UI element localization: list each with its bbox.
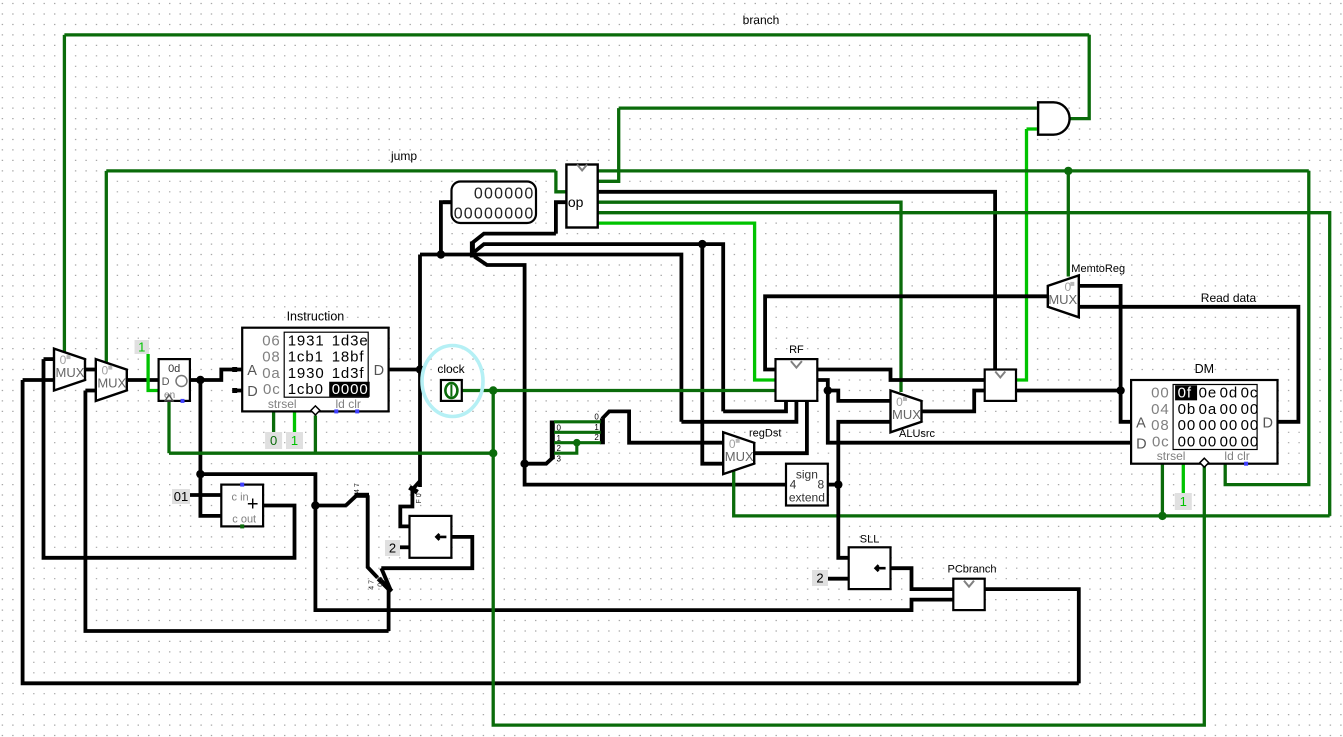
svg-text:DM: DM bbox=[1195, 362, 1214, 376]
svg-text:1d3f: 1d3f bbox=[332, 365, 365, 382]
svg-text:op: op bbox=[568, 194, 584, 210]
svg-text:D: D bbox=[1136, 437, 1146, 453]
svg-text:regDst: regDst bbox=[749, 427, 781, 439]
svg-text:1: 1 bbox=[138, 340, 145, 355]
svg-text:06: 06 bbox=[262, 332, 281, 349]
svg-text:00: 00 bbox=[1241, 433, 1260, 450]
svg-text:1: 1 bbox=[557, 434, 562, 443]
svg-text:D: D bbox=[374, 363, 384, 379]
svg-text:MUX: MUX bbox=[725, 449, 754, 464]
svg-text:0b: 0b bbox=[1178, 401, 1197, 418]
svg-text:0000: 0000 bbox=[332, 381, 369, 398]
svg-text:2: 2 bbox=[389, 541, 396, 556]
svg-text:MUX: MUX bbox=[97, 376, 126, 391]
svg-text:0: 0 bbox=[594, 412, 599, 421]
svg-text:ld clr: ld clr bbox=[1224, 449, 1249, 463]
svg-text:0: 0 bbox=[557, 423, 562, 432]
svg-text:00: 00 bbox=[1178, 433, 1197, 450]
svg-text:clock: clock bbox=[437, 362, 465, 376]
svg-text:00: 00 bbox=[1241, 401, 1260, 418]
svg-text:A: A bbox=[247, 363, 257, 379]
svg-text:1930: 1930 bbox=[288, 365, 325, 382]
svg-text:PCbranch: PCbranch bbox=[948, 564, 997, 576]
svg-text:00000000: 00000000 bbox=[454, 206, 535, 223]
svg-text:strsel: strsel bbox=[268, 397, 297, 411]
svg-text:000000: 000000 bbox=[474, 186, 535, 203]
svg-text:00: 00 bbox=[1151, 385, 1170, 402]
svg-text:MemtoReg: MemtoReg bbox=[1071, 263, 1125, 275]
svg-text:00: 00 bbox=[1220, 401, 1239, 418]
svg-text:Read data: Read data bbox=[1201, 291, 1257, 305]
svg-text:2: 2 bbox=[594, 433, 599, 442]
svg-text:2: 2 bbox=[816, 571, 823, 586]
svg-text:D: D bbox=[162, 376, 170, 388]
svg-text:0 3: 0 3 bbox=[378, 577, 385, 587]
svg-text:0e: 0e bbox=[1199, 385, 1218, 402]
svg-text:sign: sign bbox=[796, 468, 818, 482]
svg-text:F 0: F 0 bbox=[416, 493, 423, 503]
svg-text:1cb1: 1cb1 bbox=[288, 349, 324, 366]
svg-text:SLL: SLL bbox=[860, 533, 880, 545]
svg-text:0f: 0f bbox=[1178, 385, 1192, 402]
svg-text:1d3e: 1d3e bbox=[332, 332, 369, 349]
svg-text:MUX: MUX bbox=[56, 365, 85, 380]
svg-text:4 7: 4 7 bbox=[354, 483, 361, 493]
svg-text:1cb0: 1cb0 bbox=[288, 381, 324, 398]
svg-text:0c: 0c bbox=[263, 381, 281, 398]
svg-text:0c: 0c bbox=[1152, 433, 1170, 450]
svg-text:2: 2 bbox=[557, 444, 562, 453]
svg-text:ALUsrc: ALUsrc bbox=[899, 428, 936, 440]
svg-text:4 7: 4 7 bbox=[369, 580, 376, 590]
svg-text:D: D bbox=[247, 384, 257, 400]
svg-text:08: 08 bbox=[262, 349, 281, 366]
svg-text:00: 00 bbox=[1220, 417, 1239, 434]
svg-text:0a: 0a bbox=[262, 365, 281, 382]
svg-text:3: 3 bbox=[557, 455, 562, 464]
svg-text:4: 4 bbox=[790, 478, 797, 492]
svg-text:ld clr: ld clr bbox=[336, 397, 361, 411]
svg-text:08: 08 bbox=[1151, 417, 1170, 434]
svg-text:MUX: MUX bbox=[1048, 292, 1077, 307]
svg-text:0d: 0d bbox=[168, 363, 180, 375]
svg-text:00: 00 bbox=[1220, 433, 1239, 450]
svg-text:branch: branch bbox=[743, 13, 780, 27]
svg-text:+: + bbox=[247, 494, 259, 516]
svg-text:MUX: MUX bbox=[892, 407, 921, 422]
svg-text:8: 8 bbox=[817, 478, 824, 492]
svg-text:0: 0 bbox=[270, 433, 277, 448]
svg-text:00: 00 bbox=[1199, 433, 1218, 450]
svg-text:A: A bbox=[1136, 416, 1146, 432]
svg-text:RF: RF bbox=[789, 344, 804, 356]
svg-text:1931: 1931 bbox=[288, 332, 325, 349]
svg-text:01: 01 bbox=[174, 489, 188, 504]
svg-text:00: 00 bbox=[1178, 417, 1197, 434]
svg-text:00: 00 bbox=[1199, 417, 1218, 434]
svg-text:1: 1 bbox=[1180, 494, 1187, 509]
svg-text:1: 1 bbox=[291, 433, 298, 448]
svg-text:0a: 0a bbox=[1199, 401, 1218, 418]
svg-text:jump: jump bbox=[390, 149, 417, 163]
svg-text:strsel: strsel bbox=[1157, 449, 1186, 463]
svg-text:1: 1 bbox=[594, 423, 599, 432]
svg-text:extend: extend bbox=[789, 491, 825, 505]
svg-text:Instruction: Instruction bbox=[287, 310, 345, 324]
svg-text:00: 00 bbox=[1241, 417, 1260, 434]
svg-text:0d: 0d bbox=[1220, 385, 1239, 402]
svg-text:D: D bbox=[1263, 416, 1273, 432]
svg-text:18bf: 18bf bbox=[332, 349, 365, 366]
svg-text:0c: 0c bbox=[1241, 385, 1259, 402]
svg-text:c out: c out bbox=[232, 513, 256, 525]
svg-text:04: 04 bbox=[1151, 401, 1170, 418]
